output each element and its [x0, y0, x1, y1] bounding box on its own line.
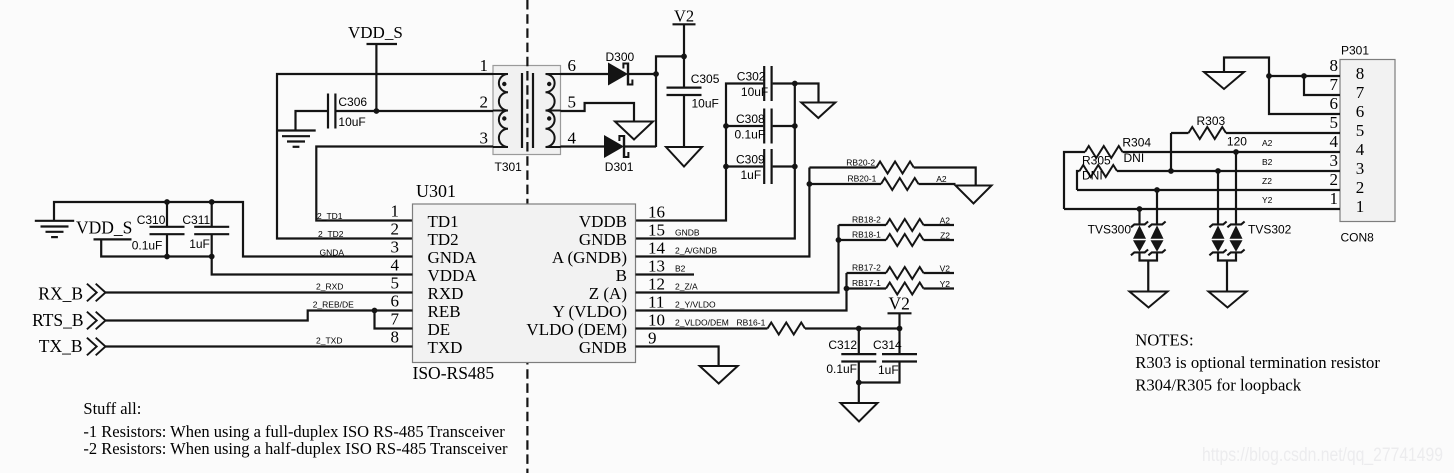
net label 2_REB/DE [313, 299, 354, 309]
U301 pin number 8 [391, 328, 400, 347]
svg-text:10uF: 10uF [692, 97, 719, 111]
node junction TVS302/A2 [1233, 149, 1239, 155]
wire C306 to ground [296, 111, 329, 131]
net label V2 (RB17) [940, 264, 951, 274]
U301 pin number 11 [648, 293, 664, 312]
label C305 [691, 72, 720, 86]
svg-text:14: 14 [648, 239, 666, 258]
net label Z2 (P301) [1262, 176, 1272, 186]
ground (open) at cap bank [801, 103, 835, 119]
svg-text:1: 1 [1330, 189, 1339, 208]
label C309 [736, 152, 765, 166]
U301 pin name TD1 [428, 212, 459, 231]
U301 pin name RXD [428, 284, 464, 303]
ground (open) at P301 [1204, 72, 1244, 89]
svg-text:4: 4 [568, 129, 577, 148]
wire VDD_S rail [101, 239, 412, 274]
transformer pin number 6 [568, 56, 577, 75]
svg-text:3: 3 [480, 129, 489, 148]
note line 1 [1135, 353, 1380, 372]
wire T301 pin3 to U301 TD1 [316, 147, 493, 221]
P301 external pin number 1 [1330, 189, 1339, 208]
svg-text:5: 5 [568, 93, 577, 112]
tvs TVS302 left stack [1209, 222, 1226, 256]
U301 pin number 12 [648, 275, 665, 294]
wire A(GNDB) pin14 to RB20 [636, 168, 810, 257]
transformer phase dots [502, 82, 551, 121]
svg-text:C302: C302 [737, 69, 766, 83]
svg-text:C309: C309 [736, 152, 765, 166]
wire P301 ground stem [1224, 58, 1340, 115]
label R304 DNI [1124, 151, 1145, 165]
capacitor C312 [841, 354, 876, 361]
svg-text:2: 2 [480, 93, 489, 112]
svg-text:C308: C308 [736, 112, 765, 126]
resistor RB20-2 [876, 162, 914, 174]
P301 internal pin number 6 [1356, 102, 1365, 121]
net label A2 (RB20) [936, 174, 947, 184]
U301 pin name TXD [428, 338, 463, 357]
P301 internal pin number 3 [1356, 159, 1365, 178]
label C308 value 0.1uF [735, 127, 766, 141]
net label Y2 (P301) [1262, 195, 1273, 205]
svg-text:NOTES:: NOTES: [1135, 331, 1193, 350]
power V2 (mid) [888, 294, 912, 314]
svg-text:11: 11 [648, 293, 664, 312]
svg-text:2: 2 [1330, 170, 1339, 189]
wire V2 mid stem [898, 313, 900, 328]
svg-text:2_TD1: 2_TD1 [317, 211, 343, 221]
wire RB16-1 to C312/C314 [805, 327, 900, 329]
svg-text:P301: P301 [1341, 44, 1369, 58]
wire T301 pin1 to U301 TD2 [277, 74, 493, 239]
wire TVS300 to ground [1147, 261, 1149, 292]
wire C310 bottom [166, 234, 168, 256]
resistor R305 [1080, 165, 1118, 177]
svg-text:8: 8 [391, 328, 400, 347]
U301 pin number 9 [648, 329, 657, 348]
capacitor C310 [150, 227, 185, 234]
svg-text:RB20-2: RB20-2 [846, 157, 875, 167]
wire RB20-2 left [809, 166, 876, 168]
U301 pin number 14 [648, 239, 666, 258]
ground (open) at pin9 [700, 366, 738, 384]
svg-text:RB20-1: RB20-1 [848, 173, 877, 183]
svg-text:RB18-1: RB18-1 [852, 230, 881, 240]
note NOTES heading [1135, 331, 1193, 350]
ground (open) below TVS302 [1209, 292, 1247, 308]
node junction C312 top [856, 326, 862, 332]
svg-text:B2: B2 [675, 263, 686, 273]
svg-text:REB: REB [428, 302, 461, 321]
P301 internal pin number 2 [1356, 178, 1365, 197]
wire C308 right [773, 125, 795, 127]
U301 pin name REB [428, 302, 461, 321]
node junctions C311 [209, 199, 215, 259]
svg-text:VDD_S: VDD_S [76, 217, 132, 237]
label C306 [338, 95, 367, 109]
svg-text:3: 3 [391, 238, 400, 257]
capacitor C302 [764, 66, 771, 101]
net label Y2 (RB17) [940, 279, 951, 289]
P301 external pin number 8 [1330, 56, 1339, 75]
wire TVS302 bottoms join [1218, 252, 1236, 260]
node junction TVS302/B2 [1215, 168, 1221, 174]
svg-text:DNI: DNI [1082, 169, 1103, 183]
svg-text:V2: V2 [889, 294, 910, 314]
U301 pin number 1 [391, 202, 400, 221]
svg-text:RXD: RXD [428, 284, 464, 303]
wire D301 cathode to node [624, 145, 656, 147]
label RB16-1 [737, 317, 766, 327]
wire R305 loop leg [1077, 171, 1080, 190]
wire R303 stub [1171, 132, 1189, 134]
resistor RB18-1 [886, 234, 924, 246]
label C302 [737, 69, 766, 83]
power VDD_S (top) [348, 23, 403, 44]
svg-text:V2: V2 [940, 264, 951, 274]
wire RB17-2 left [847, 272, 887, 274]
P301 internal pin number 7 [1356, 83, 1365, 102]
node junction C309 right [792, 164, 798, 170]
U301 pin name DE [428, 320, 451, 339]
node junction C308 left [723, 123, 729, 129]
U301 pin number 7 [391, 310, 400, 329]
svg-text:RB16-1: RB16-1 [737, 317, 766, 327]
transformer pin number 3 [480, 129, 489, 148]
svg-text:2_TXD: 2_TXD [316, 335, 342, 345]
svg-text:R304/R305 for loopback: R304/R305 for loopback [1135, 375, 1302, 394]
wire Z2 to P301 pin2 [1077, 189, 1340, 191]
transformer pin number 1 [480, 56, 489, 75]
wire TX_B to TXD [106, 345, 413, 347]
ground (open) at RB20 [956, 186, 992, 204]
svg-text:10uF: 10uF [338, 115, 365, 129]
svg-text:A2: A2 [1262, 138, 1273, 148]
connector P301 body [1340, 60, 1395, 222]
svg-text:https://blog.csdn.net/qq_27741: https://blog.csdn.net/qq_27741499 [1202, 444, 1443, 466]
svg-text:4: 4 [1356, 140, 1365, 159]
node junction TVS300/Z2 [1154, 187, 1160, 193]
wire RX_B to RXD [106, 291, 413, 293]
capacitor C306 [328, 94, 335, 129]
wire RTS_B to REB [106, 311, 413, 321]
transformer pin number 4 [568, 129, 577, 148]
svg-text:TVS302: TVS302 [1248, 223, 1292, 237]
U301 pin number 15 [648, 221, 665, 240]
node junction C302 right [792, 81, 798, 87]
wire RB18-1 right [924, 239, 955, 241]
svg-text:Z2: Z2 [940, 231, 950, 241]
svg-text:A (GNDB): A (GNDB) [552, 248, 627, 267]
label R304 [1122, 135, 1151, 149]
P301 external pin number 2 [1330, 170, 1339, 189]
port RX_B [38, 283, 105, 303]
net label GNDB (pin15) [675, 227, 700, 237]
wire T301 pin2 to C306 [335, 110, 493, 112]
tvs TVS300 right stack [1148, 222, 1165, 256]
svg-text:2_A/GNDB: 2_A/GNDB [675, 245, 717, 255]
U301 pin name Y (VLDO) [553, 302, 627, 321]
svg-text:2_TD2: 2_TD2 [318, 229, 344, 239]
label R305 [1082, 153, 1111, 167]
svg-text:10uF: 10uF [741, 85, 768, 99]
svg-text:A2: A2 [940, 216, 951, 226]
svg-text:TVS300: TVS300 [1088, 223, 1132, 237]
U301 pin name TD2 [428, 230, 459, 249]
node junction TVS300/Y2 [1137, 206, 1143, 212]
resistor RB17-2 [886, 267, 924, 279]
svg-text:6: 6 [391, 292, 400, 311]
node junction R303/B2 [1168, 168, 1174, 174]
transformer T301 body [493, 66, 561, 155]
label C308 [736, 112, 765, 126]
svg-text:7: 7 [1356, 83, 1365, 102]
svg-text:TD1: TD1 [428, 212, 459, 231]
svg-text:C310: C310 [137, 213, 166, 227]
label RB18-2 [852, 215, 881, 225]
U301 pin number 10 [648, 311, 665, 330]
net label 2_TD2 [318, 229, 344, 239]
net label B2 (P301) [1262, 157, 1273, 167]
svg-text:Stuff all:: Stuff all: [83, 399, 141, 418]
svg-text:C305: C305 [691, 72, 720, 86]
net label B2 (pin13) [675, 263, 686, 273]
wire R303 to P301 pin5 [1226, 132, 1340, 134]
svg-text:TD2: TD2 [428, 230, 459, 249]
wire T301 pin4 to D301 [561, 145, 605, 147]
label D300 [606, 50, 635, 64]
resistor RB20-1 [881, 178, 919, 190]
label C310 [137, 213, 166, 227]
U301 pin name VDDA [428, 266, 478, 285]
label C312 value 0.1uF [826, 362, 857, 376]
svg-text:RB18-2: RB18-2 [852, 215, 881, 225]
wire C314 bottom to node [859, 362, 900, 383]
wire GNDB pin9 to ground [636, 347, 719, 367]
label RB20-1 [848, 173, 877, 183]
net label 2_A/GNDB [675, 245, 717, 255]
net label A2 (RB18) [940, 216, 951, 226]
note stuff line 1 [83, 422, 505, 441]
wire TVS300 bottoms join [1140, 252, 1158, 260]
wire C311 bottom [211, 234, 213, 256]
resistor R303 [1189, 127, 1227, 139]
wire P301 pin7 [1304, 76, 1340, 95]
wire RB18-1 left [839, 239, 887, 241]
wire ground rail (left) [54, 202, 413, 257]
svg-text:7: 7 [391, 310, 400, 329]
wire node to C305 [683, 56, 685, 87]
svg-text:T301: T301 [495, 160, 523, 174]
svg-text:CON8: CON8 [1341, 231, 1375, 245]
svg-text:4: 4 [1330, 132, 1339, 151]
wire TVS302 right leg [1235, 152, 1237, 224]
power V2 (top) [673, 7, 696, 26]
wire B2 to P301 pin3 [1117, 170, 1340, 172]
U301 pin number 5 [391, 274, 400, 293]
node junction RB17 [844, 286, 850, 292]
note line 2 [1135, 375, 1302, 394]
capacitor C314 [882, 354, 917, 361]
svg-text:D301: D301 [605, 160, 634, 174]
svg-text:6: 6 [568, 56, 577, 75]
label RB20-2 [846, 157, 875, 167]
svg-text:VDDA: VDDA [428, 266, 478, 285]
svg-text:R305: R305 [1082, 153, 1111, 167]
svg-text:-2 Resistors: When using a hal: -2 Resistors: When using a half-duplex I… [83, 439, 508, 458]
transformer T301 secondary winding [546, 74, 561, 147]
node junction RB20 [807, 181, 813, 187]
svg-text:2_Y/VLDO: 2_Y/VLDO [675, 299, 716, 309]
wire RB18-2 left [839, 224, 887, 226]
U301 pin name VDDB [579, 212, 627, 231]
wire C305 to ground [683, 95, 685, 147]
capacitor C305 [667, 88, 702, 95]
label P301 [1341, 44, 1369, 58]
net label 2_Y/VLDO [675, 299, 716, 309]
U301 pin name VLDO (DEM) [526, 320, 627, 339]
node junction C314 top [897, 326, 903, 332]
node junction REB/DE [372, 308, 378, 314]
U301 pin number 13 [648, 257, 665, 276]
svg-text:RB17-1: RB17-1 [852, 278, 881, 288]
wire RB20-1 left [809, 183, 881, 185]
U301 pin number 4 [391, 256, 400, 275]
isolation barrier (dashed) [526, 0, 528, 473]
label TVS300 [1088, 223, 1132, 237]
wire Y2 to P301 pin1 [1064, 208, 1340, 210]
wire TVS302 to ground [1226, 261, 1228, 292]
U301 pin name B [616, 266, 627, 285]
label R303 [1197, 114, 1226, 128]
node junction D300/D301/V2 [653, 71, 659, 77]
transformer T301 core [522, 73, 533, 148]
U301 pin number 3 [391, 238, 400, 257]
diode D301 (schottky) [604, 135, 628, 158]
label RB17-1 [852, 278, 881, 288]
svg-text:Z (A): Z (A) [589, 284, 627, 303]
svg-text:120: 120 [1227, 134, 1247, 148]
P301 internal pin number 1 [1356, 197, 1365, 216]
svg-text:C312: C312 [828, 338, 857, 352]
wire RB20-1 right [919, 183, 956, 185]
U301 pin name GNDB [579, 230, 627, 249]
transformer T301 primary winding [493, 74, 508, 147]
ground (earth) left [35, 221, 74, 237]
wire C308 left [726, 125, 763, 127]
svg-text:3: 3 [1356, 159, 1365, 178]
P301 internal pin number 5 [1356, 121, 1365, 140]
svg-text:2: 2 [391, 220, 400, 239]
svg-text:8: 8 [1330, 56, 1339, 75]
svg-text:4: 4 [391, 256, 400, 275]
net label 2_TXD [316, 335, 342, 345]
svg-text:D300: D300 [606, 50, 635, 64]
svg-text:1uF: 1uF [741, 168, 762, 182]
svg-text:3: 3 [1330, 151, 1339, 170]
svg-text:1: 1 [480, 56, 489, 75]
U301 pin number 16 [648, 203, 665, 222]
node junction pin8 wire b [1301, 73, 1307, 79]
svg-text:TXD: TXD [428, 338, 463, 357]
svg-text:9: 9 [648, 329, 657, 348]
svg-text:B2: B2 [1262, 157, 1273, 167]
wire C309 right [773, 165, 795, 167]
resistor R304 [1085, 146, 1123, 158]
svg-text:VLDO (DEM): VLDO (DEM) [526, 320, 627, 339]
transformer pin number 5 [568, 93, 577, 112]
ground (earth) at C306 [276, 131, 315, 147]
svg-text:16: 16 [648, 203, 665, 222]
net label 2_VLDO/DEM [675, 317, 729, 327]
svg-text:2: 2 [1356, 178, 1365, 197]
P301 internal pin number 8 [1356, 64, 1365, 83]
wire Z(A) pin12 to RB18 [636, 225, 839, 293]
node junction pin8 wire a [1266, 73, 1272, 79]
U301 pin number 6 [391, 292, 400, 311]
wire REB to DE [375, 311, 413, 329]
net label 2_Z/A [675, 281, 698, 291]
wire TVS300 left leg [1138, 209, 1140, 224]
svg-text:Z2: Z2 [1262, 176, 1272, 186]
net label 2_RXD [316, 281, 343, 291]
watermark [1202, 444, 1443, 466]
svg-text:2_VLDO/DEM: 2_VLDO/DEM [675, 317, 729, 327]
wire C302 to right rail [773, 82, 795, 84]
note Stuff all heading [83, 399, 141, 418]
wire cap bank to ground [795, 84, 819, 103]
label U301 [416, 181, 456, 201]
label C311 value 1uF [189, 237, 210, 251]
svg-text:0.1uF: 0.1uF [826, 362, 857, 376]
capacitor C311 [194, 227, 229, 234]
wire R304 loop leg [1064, 152, 1085, 209]
svg-text:B: B [616, 266, 627, 285]
node junction C312/C314 bottom [856, 380, 862, 386]
label C309 value 1uF [741, 168, 762, 182]
transformer pin number 2 [480, 93, 489, 112]
net label GNDA [320, 247, 345, 257]
svg-text:C314: C314 [873, 338, 902, 352]
resistor RB16-1 [768, 323, 806, 335]
svg-text:-1 Resistors: When using a ful: -1 Resistors: When using a full-duplex I… [83, 422, 505, 441]
node junction RB18 [836, 237, 842, 243]
wire RB17-2 right [924, 272, 955, 274]
svg-text:Y2: Y2 [1262, 195, 1273, 205]
svg-text:DNI: DNI [1124, 151, 1145, 165]
svg-text:R304: R304 [1122, 135, 1151, 149]
svg-text:DE: DE [428, 320, 451, 339]
svg-text:1uF: 1uF [189, 237, 210, 251]
power VDD_S (left) [76, 217, 132, 239]
wire VDDB to cap bank (left rail) [636, 84, 764, 221]
label C312 [828, 338, 857, 352]
P301 external pin number 5 [1330, 113, 1339, 132]
svg-text:VDD_S: VDD_S [348, 23, 403, 42]
U301 pin name GNDA [428, 248, 478, 267]
wire P301 pin8 [1269, 75, 1340, 77]
svg-text:5: 5 [1330, 113, 1339, 132]
svg-text:ISO-RS485: ISO-RS485 [413, 363, 495, 383]
svg-text:V2: V2 [674, 7, 694, 26]
label C314 [873, 338, 902, 352]
wire TVS300 right leg [1156, 190, 1158, 224]
svg-text:C311: C311 [182, 213, 210, 227]
label C311 [182, 213, 210, 227]
resistor RB17-1 [886, 283, 924, 295]
node junction C309 left [723, 164, 729, 170]
